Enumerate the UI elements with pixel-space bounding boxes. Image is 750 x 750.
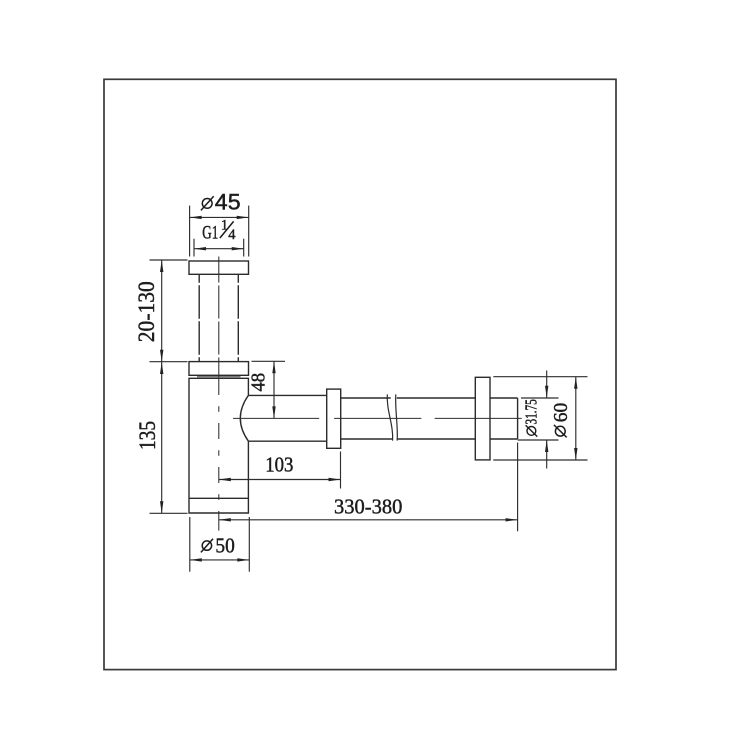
arrow 48 down (272, 406, 275, 418)
dim d60 extension lines (493, 376, 587, 378)
vertical centerline flange crossing (218, 362, 220, 378)
dim 103 line (219, 479, 341, 481)
arrow 103 right (329, 478, 341, 481)
horizontal centerline seg3 (435, 417, 522, 419)
washer line (197, 376, 241, 378)
arrow G1/4 right (232, 247, 244, 250)
svg-text:135: 135 (135, 421, 160, 450)
vertical pipe wall left (198, 274, 200, 361)
trap body outline (189, 378, 248, 513)
horizontal centerline seg1 (233, 417, 319, 419)
pipe segment break to nut2 bottom (398, 438, 476, 440)
dim 20-130 line (161, 260, 163, 362)
arrow d45 right (237, 216, 249, 219)
arrow 48 up (272, 361, 275, 373)
label d45 (201, 189, 241, 214)
bottom flange of tube (189, 362, 249, 376)
dim d45 line (190, 216, 249, 218)
label d60 (rotated) (550, 403, 572, 438)
dim d45 extension lines (189, 206, 191, 257)
dim 48 extension (252, 360, 286, 362)
pipe end edge (517, 398, 519, 439)
dim d50 line (190, 559, 250, 561)
dim 135 bottom extension (150, 512, 188, 514)
body bottom cap joint (189, 497, 248, 499)
pipe stub after nut2 top (490, 397, 518, 399)
nut N1 on pipe (327, 389, 341, 448)
vertical centerline upper (218, 257, 220, 362)
dim 330-380 line (219, 519, 518, 521)
horizontal pipe segment body to nut1 top (248, 394, 326, 396)
border frame (104, 79, 616, 669)
arrow d31.75 down (545, 386, 548, 398)
svg-text:G1: G1 (202, 222, 218, 243)
arrow 20-130 down (160, 350, 163, 362)
pipe segment break to nut2 top (397, 397, 476, 399)
label d31.75 (rotated) (522, 399, 541, 436)
dim 135 line (161, 362, 163, 514)
horizontal centerline seg2 (334, 417, 421, 419)
vertical pipe wall right (237, 274, 239, 361)
arrow d60 up (574, 377, 577, 389)
arrow 103 left (219, 478, 231, 481)
arrow 135 down (160, 501, 163, 513)
arrow d45 left (190, 216, 202, 219)
svg-text:20-130: 20-130 (134, 281, 159, 342)
svg-text:50: 50 (215, 534, 234, 558)
pipe stub after nut2 bottom (490, 438, 518, 440)
horizontal pipe segment body to nut1 bottom (248, 440, 326, 442)
label d50 (201, 534, 235, 558)
break squiggle right (396, 394, 398, 440)
dim 20-130 extension lines (150, 259, 188, 261)
label G1-1/4 (202, 218, 236, 244)
dim d31.75 line above (546, 371, 548, 399)
vertical centerline below body (218, 513, 220, 531)
svg-text:4: 4 (228, 227, 236, 243)
arrow G1/4 left (194, 247, 206, 250)
break squiggle left (387, 394, 392, 440)
wall nut N2 (475, 377, 490, 460)
arrow d50 left (190, 558, 202, 561)
arrow 135 up (160, 362, 163, 374)
svg-text:48: 48 (247, 373, 269, 392)
dim d60 line (575, 377, 577, 460)
pipe segment nut1 to break bottom (341, 438, 393, 440)
svg-text:45: 45 (215, 189, 241, 214)
pipe segment nut1 to break top (341, 397, 391, 399)
svg-text:103: 103 (265, 453, 293, 477)
arrow d50 right (237, 558, 249, 561)
arrow d31.75 up (545, 440, 548, 452)
pipe-body intersection arc (240, 395, 248, 441)
arrow 330-380 right (506, 518, 518, 521)
dim G1-1/4 extension lines (193, 239, 195, 257)
dim 330-380 right extension (517, 443, 519, 532)
top flange (basin nut) (189, 261, 249, 274)
dim d50 extension lines (189, 517, 191, 572)
dim d31.75 line below (546, 440, 548, 469)
dim d31.75 extension lines (521, 397, 559, 399)
dim 48 line (273, 361, 275, 418)
svg-text:330-380: 330-380 (334, 495, 402, 519)
dim 103 right extension (340, 452, 342, 489)
vertical centerline in body (218, 379, 220, 513)
svg-text:31.75: 31.75 (522, 399, 541, 424)
arrow d60 down (574, 448, 577, 460)
svg-text:1: 1 (221, 218, 228, 234)
svg-text:60: 60 (550, 403, 572, 423)
arrow 330-380 left (219, 518, 231, 521)
arrow 20-130 up (160, 260, 163, 272)
dim G1-1/4 line (194, 248, 244, 250)
